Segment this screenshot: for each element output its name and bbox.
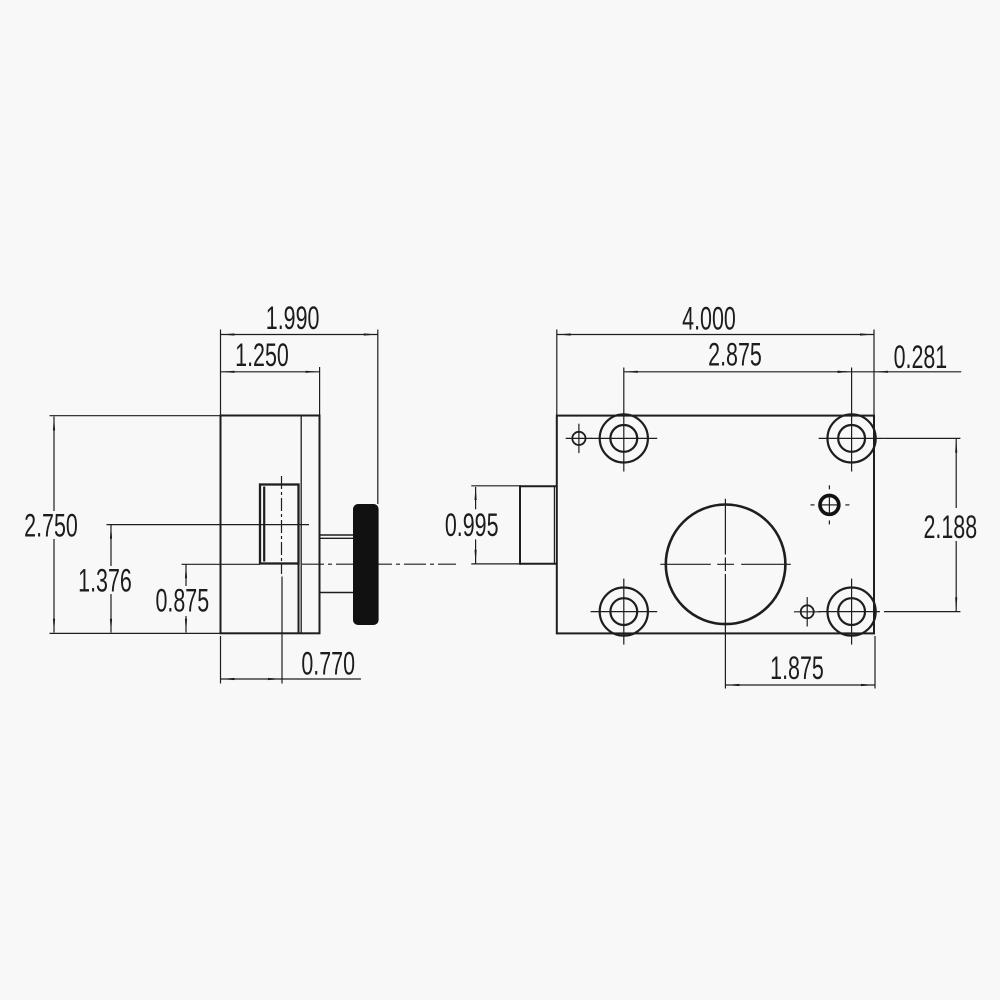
svg-text:2.875: 2.875 [708, 336, 762, 372]
svg-text:2.750: 2.750 [24, 507, 78, 543]
svg-text:0.770: 0.770 [301, 645, 355, 681]
svg-text:0.875: 0.875 [155, 582, 209, 618]
svg-text:1.376: 1.376 [78, 562, 132, 598]
svg-text:0.995: 0.995 [445, 507, 499, 543]
svg-text:0.281: 0.281 [894, 338, 948, 374]
svg-text:4.000: 4.000 [682, 300, 736, 336]
svg-text:1.990: 1.990 [266, 300, 320, 336]
svg-text:2.188: 2.188 [923, 508, 977, 544]
svg-text:1.875: 1.875 [770, 650, 824, 686]
svg-text:1.250: 1.250 [235, 337, 289, 373]
